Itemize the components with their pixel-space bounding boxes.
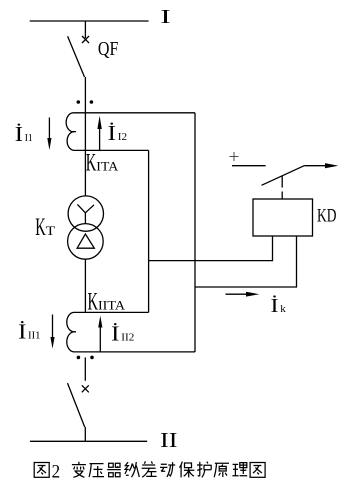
svg-text:2: 2: [52, 461, 61, 482]
wire stub to bus II: [84, 427, 86, 441]
transformer KT wye symbol: [77, 204, 94, 223]
caption char ya: [89, 464, 104, 477]
wire stub from bus I: [84, 21, 86, 38]
caption char bian: [72, 462, 86, 478]
caption char bao: [180, 462, 195, 478]
svg-text:İII1: İII1: [18, 319, 41, 343]
svg-text:II: II: [160, 428, 178, 452]
current I_II2 arrow: [98, 316, 102, 352]
bus II: [30, 440, 147, 442]
caption figure 2 text: [34, 461, 265, 482]
relay KD box: [253, 199, 313, 236]
svg-text:KD: KD: [317, 206, 336, 227]
wire CT KIITA bottom lead: [74, 351, 195, 353]
caption char zong: [125, 462, 139, 477]
wire CT KITA bottom lead: [74, 149, 149, 151]
CT KIITA polarity dots: [77, 356, 94, 360]
caption char tu: [34, 463, 49, 478]
wire vertical right A: [194, 113, 196, 352]
wire contact output: [304, 165, 326, 167]
current I_I1 arrow: [47, 118, 51, 151]
wire transformer to CT KIITA: [84, 259, 86, 312]
wire vertical right B: [148, 150, 150, 312]
output arrowhead: [325, 163, 338, 168]
caption char tu 2: [250, 463, 265, 478]
current I_II1 arrow: [50, 315, 54, 349]
bus I: [30, 20, 149, 22]
svg-text:İk: İk: [271, 294, 286, 317]
caption char qi: [107, 463, 121, 477]
caption char li: [232, 463, 247, 476]
wire main line CT KIITA to breaker 2: [84, 357, 86, 380]
CT KIITA secondary winding: [67, 312, 76, 352]
svg-text:QF: QF: [98, 39, 119, 60]
wire KD right terminal: [195, 236, 297, 287]
caption char cha: [142, 461, 157, 477]
CT KITA polarity dots: [77, 100, 94, 104]
caption char dong: [160, 462, 175, 477]
wire CT KITA top lead: [74, 112, 196, 114]
current I_I2 arrow: [97, 116, 101, 151]
wire KD left terminal: [149, 236, 273, 261]
breaker QF2 X mark: [82, 385, 89, 392]
current I_k arrow: [226, 292, 260, 297]
breaker QF blade: [68, 36, 85, 77]
svg-text:İI2: İI2: [108, 121, 128, 145]
svg-text:KT: KT: [35, 212, 55, 241]
CT KITA secondary winding: [66, 113, 76, 151]
svg-text:İI1: İI1: [15, 122, 33, 146]
breaker QF2 blade: [68, 383, 85, 427]
svg-text:KIITA: KIITA: [88, 287, 126, 316]
breaker QF X mark: [82, 36, 89, 43]
wire main line breaker to transformer: [84, 77, 86, 196]
transformer KT circle 1: [68, 196, 103, 231]
plus terminal: [230, 152, 239, 161]
transformer KT circle 2: [68, 224, 104, 260]
caption char yuan: [214, 463, 229, 477]
wire CT KIITA top lead: [74, 311, 149, 313]
relay KD actuation dashed link: [281, 176, 283, 198]
svg-text:İII2: İII2: [111, 322, 134, 346]
caption char hu: [197, 462, 212, 478]
wire plus lead: [232, 165, 266, 167]
transformer KT delta symbol: [77, 234, 94, 248]
svg-text:KITA: KITA: [86, 148, 119, 177]
relay contact blade: [262, 166, 305, 186]
svg-text:I: I: [160, 6, 171, 28]
